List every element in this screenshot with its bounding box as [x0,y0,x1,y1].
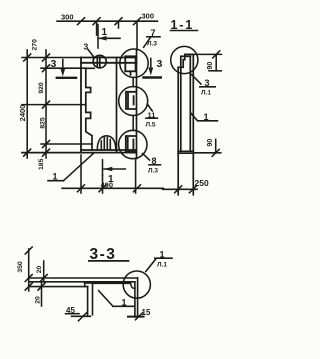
svg-text:3: 3 [84,41,89,51]
inner cavity left stepped contour [86,68,94,150]
dimension 15 (section 3-3) [128,308,151,320]
section 1-1 wall [178,54,193,194]
detail circle bottom (8/L.3) [119,130,147,158]
svg-text:7: 7 [151,28,156,38]
svg-text:300: 300 [61,13,74,22]
leader and label 8/L.3 [143,154,161,175]
svg-text:1: 1 [102,27,108,38]
embedded channel in bottom circle [126,136,136,152]
svg-text:1: 1 [122,297,127,307]
svg-text:Л.3: Л.3 [147,41,157,48]
svg-text:3: 3 [157,58,163,70]
section 1-1 detail circle (3/L.1) [171,46,198,73]
svg-text:250: 250 [195,178,209,188]
left segment dimension line 270/920/825/185 [22,39,92,170]
section cut 1 bottom mark [103,160,126,185]
dimension 45 (section 3-3) [66,306,91,321]
bottom dimension line 490 (plan) [62,155,163,193]
svg-text:90: 90 [207,139,214,147]
detail circle middle (11/L.5) [119,87,148,116]
leader and label 1/L.1 [146,249,172,271]
svg-text:Л.1: Л.1 [157,262,167,269]
part label 1 (section 3-3) [99,291,134,308]
embedded item in top circle [125,56,135,75]
svg-text:270: 270 [32,39,39,51]
dimension 90 bottom (section 1-1) [193,139,221,157]
svg-text:20: 20 [36,266,43,274]
svg-text:1-1: 1-1 [171,18,194,32]
inner cavity right wall [116,58,118,153]
svg-text:20: 20 [35,296,42,304]
section 3-3 detail circle (1/L.1) [123,271,150,298]
top dimension line with 300 + 300 [57,12,158,50]
part label 1 (plan, leader to panel) [48,153,94,182]
svg-text:3: 3 [205,78,210,88]
part label 1 (section 1-1) [191,112,218,122]
svg-text:490: 490 [101,181,114,190]
left overall dimension 2400 [18,50,31,158]
panel outline (plan view) [22,50,137,159]
lifting loop (item 3, plan) [93,55,106,68]
svg-text:2400: 2400 [18,105,27,122]
svg-text:350: 350 [17,261,24,273]
embedded channel in middle circle [126,92,136,109]
svg-text:11: 11 [148,110,156,119]
dimension 20 bottom (section 3-3) [35,283,46,306]
svg-text:825: 825 [40,117,47,129]
section 3-3 right rib [135,278,138,317]
section 3-3 title [89,246,129,263]
section 3-3 slab [29,278,138,288]
dimension 90 top (section 1-1) [193,51,221,71]
svg-text:1: 1 [204,112,209,122]
dimension 20 top (section 3-3) [36,261,47,282]
svg-text:90: 90 [207,62,214,70]
svg-text:300: 300 [142,12,155,21]
section 1-1 title [171,18,198,32]
svg-text:Л.1: Л.1 [201,90,211,97]
dimension 250 (section 1-1 bottom) [163,178,209,193]
svg-text:185: 185 [38,158,45,170]
svg-text:1: 1 [53,171,58,181]
section cut 3 left mark [51,58,77,78]
svg-text:8: 8 [152,156,157,166]
detail circle top (7/L.3) [120,49,148,77]
section cut 1 top mark [98,25,120,49]
label 3 with leader [84,41,94,56]
section 3-3 left rib [85,283,93,315]
svg-text:1: 1 [160,249,165,259]
svg-text:920: 920 [38,82,45,94]
arch opening with hatching (plan bottom) [97,136,116,150]
left dimension 350 (section 3-3) [17,247,32,291]
leader and label 7/L.3 [144,28,160,48]
svg-text:Л.3: Л.3 [148,168,158,175]
leader and label 3/L.1 [192,75,216,97]
section cut 3 right mark [144,58,163,78]
svg-text:Л.5: Л.5 [146,122,156,129]
leader and label 11/L.5 [146,104,158,129]
